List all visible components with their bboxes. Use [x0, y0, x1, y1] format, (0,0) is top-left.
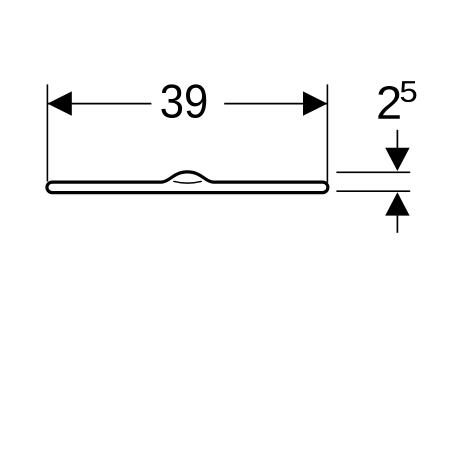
extension line left (width 39)	[46, 84, 48, 181]
extension line bottom (thickness)	[336, 190, 410, 192]
vertical dimension line upper segment (thickness)	[396, 130, 398, 149]
superscript 5 of thickness text	[401, 81, 417, 102]
inner arc under bump	[173, 181, 202, 183]
arrowhead bottom (pointing up)	[385, 192, 409, 215]
arrowhead top (pointing down)	[385, 148, 409, 171]
dimension text 2 (thickness)	[378, 86, 399, 119]
dimension line 39 left segment	[47, 103, 151, 105]
arrowhead left of dimension 39	[47, 91, 71, 115]
arrowhead right of dimension 39	[303, 91, 327, 115]
dimension line 39 right segment	[224, 103, 327, 105]
vertical dimension line lower segment (thickness)	[396, 216, 398, 233]
dimension text 39	[161, 84, 206, 118]
extension line top (thickness)	[336, 171, 410, 173]
shelf plate cross-section outline	[47, 172, 328, 193]
extension line right (width 39)	[326, 84, 328, 182]
